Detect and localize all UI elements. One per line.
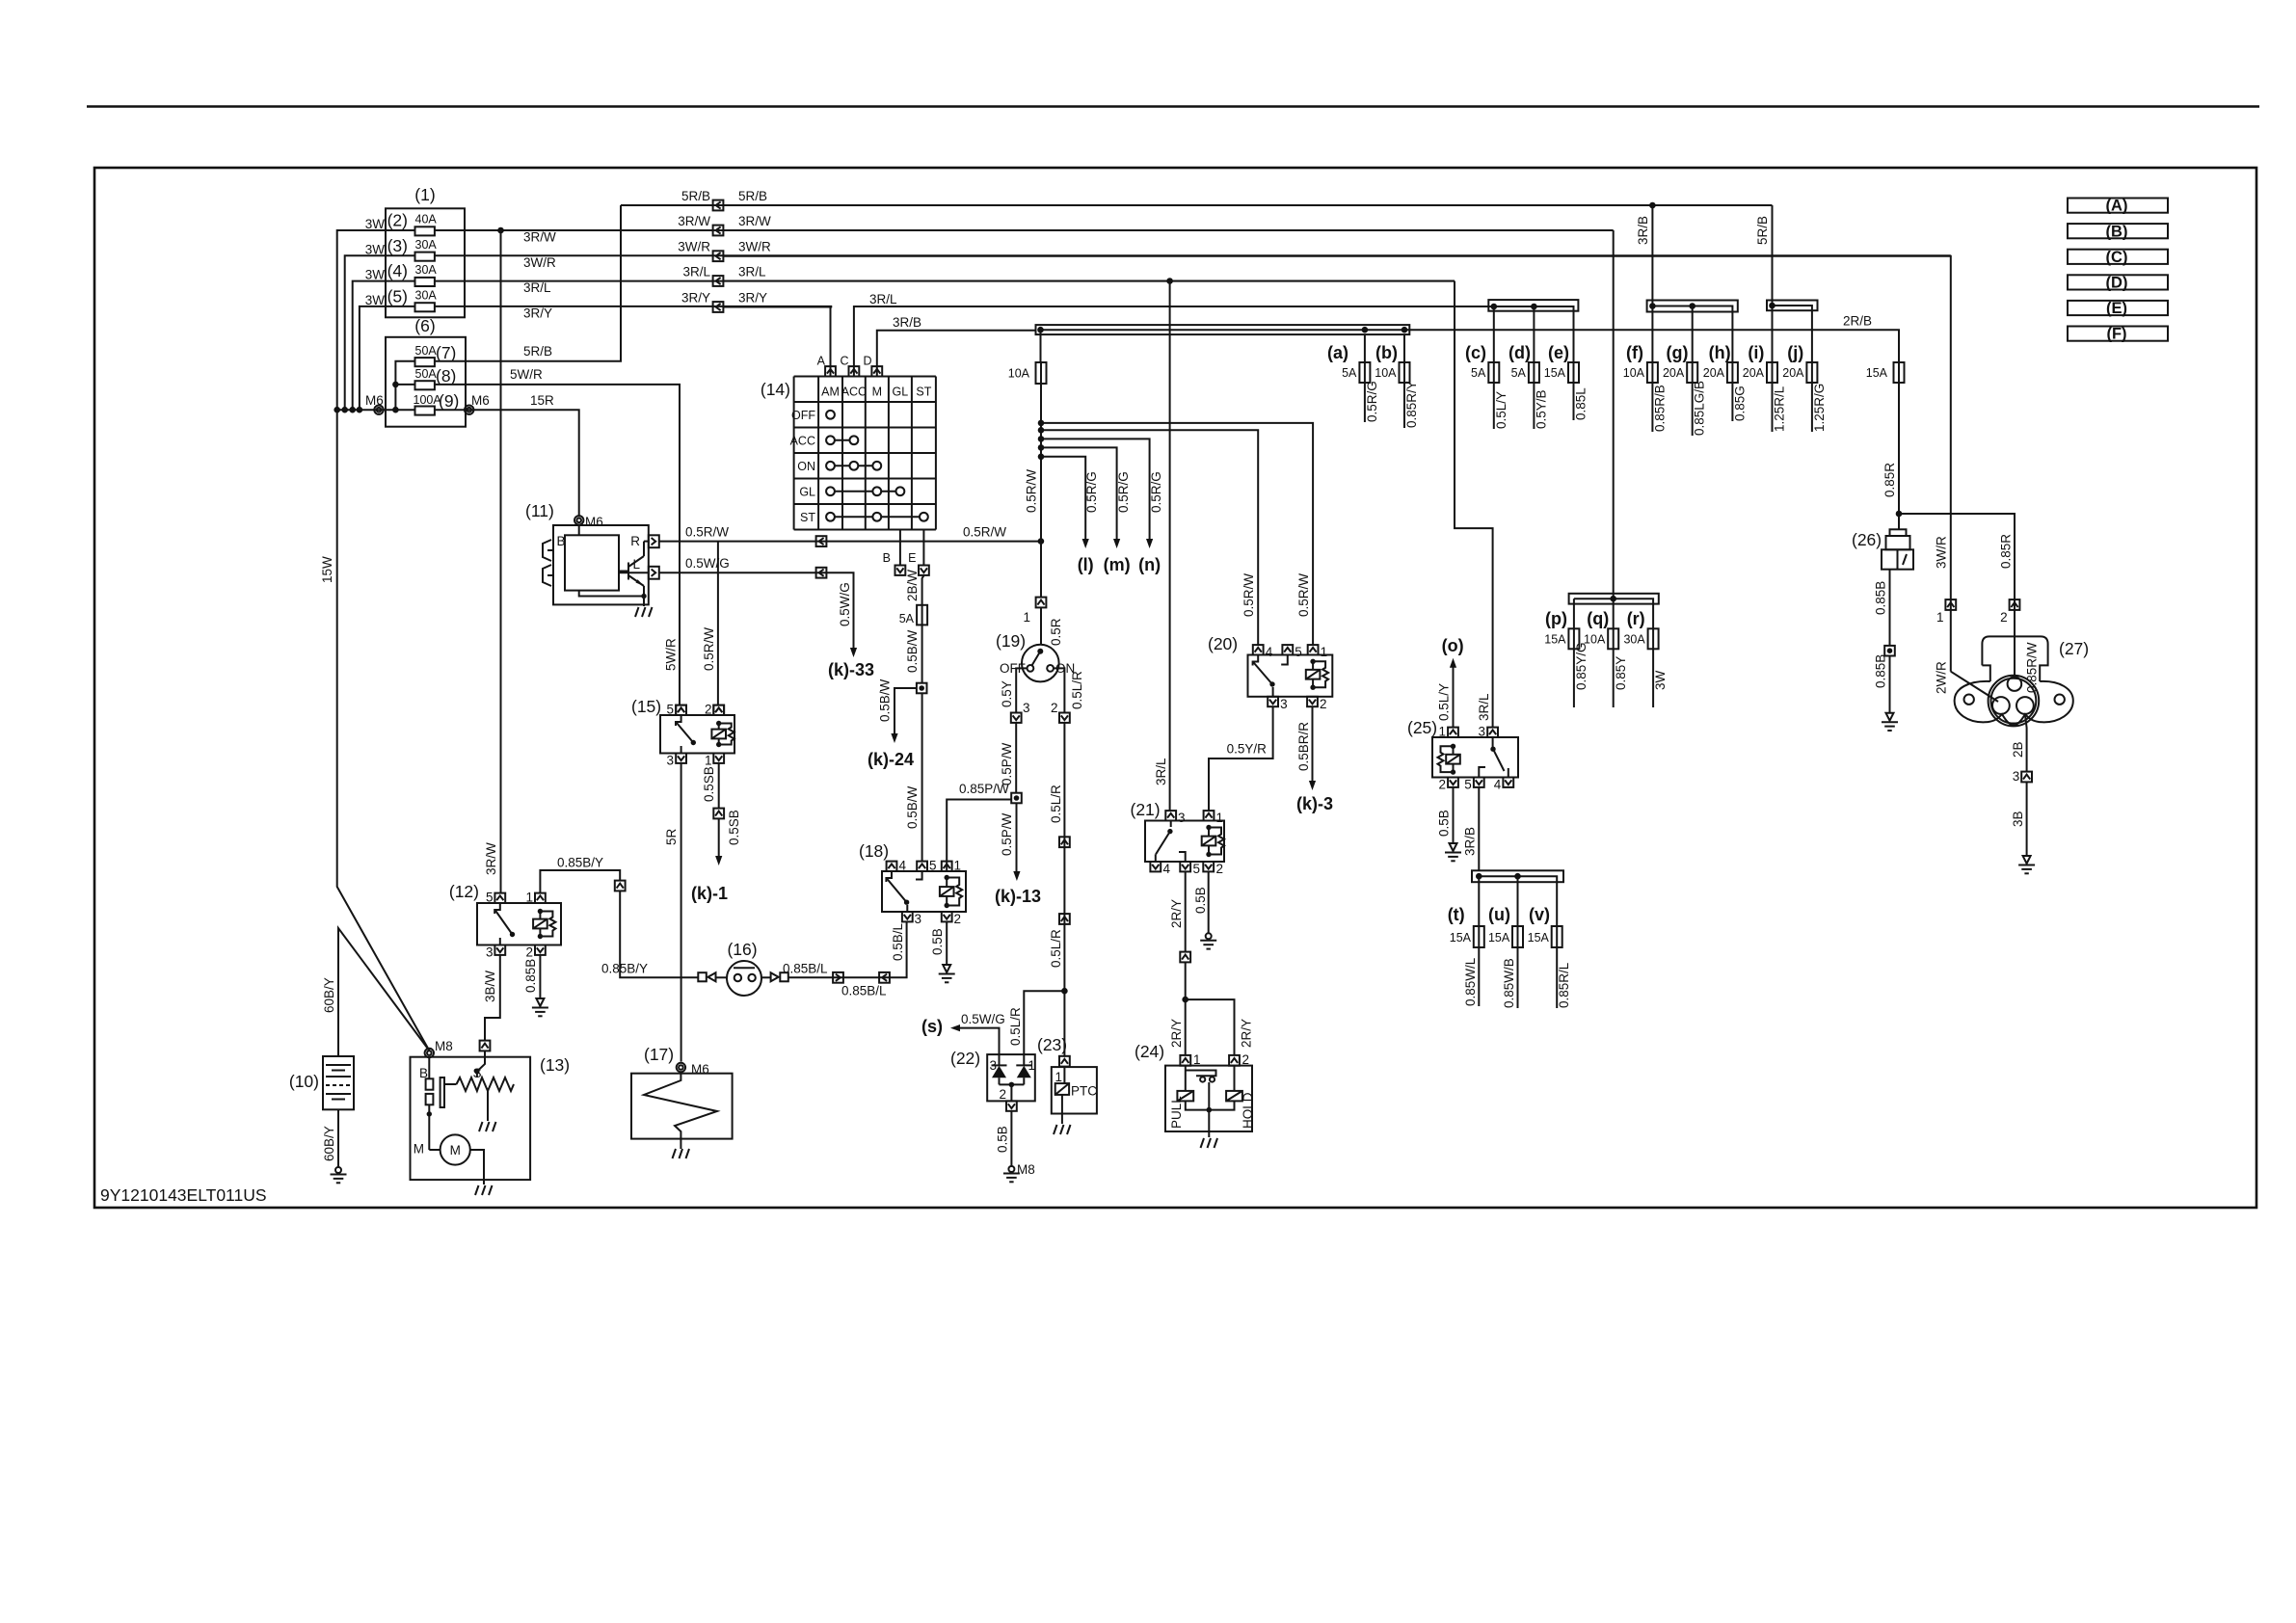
fuse 10A bbox=[1036, 362, 1047, 384]
wire 0.5L/R ON side bbox=[1054, 668, 1064, 712]
wire 2W/R diagonal bbox=[1951, 672, 1998, 702]
contact squares bbox=[426, 1078, 434, 1104]
wire 0.5Y/R pin 3 to (21) pin 1 bbox=[1209, 706, 1273, 811]
wire 0.5B to M8 ground bbox=[1010, 1111, 1012, 1166]
svg-text:3W: 3W bbox=[365, 217, 386, 231]
junction dot bbox=[641, 594, 646, 599]
starter (13) body bbox=[411, 1057, 531, 1180]
wire B internal bbox=[578, 525, 580, 536]
wire 0.5P/W to arrow bbox=[1016, 803, 1018, 871]
page top rule bbox=[87, 105, 2259, 108]
fuse (c) 5A bbox=[1488, 362, 1499, 383]
wire 0.85Y/G stub bbox=[1573, 649, 1575, 707]
pin 2 connector bbox=[1059, 713, 1070, 723]
svg-text:0.85W/L: 0.85W/L bbox=[1463, 957, 1478, 1006]
socket ring bbox=[1989, 676, 2040, 727]
wire main bus 15R bbox=[337, 409, 415, 411]
svg-text:(27): (27) bbox=[2059, 639, 2089, 658]
socket (27) hood bbox=[1982, 636, 2047, 681]
fuse (h) 20A bbox=[1727, 362, 1738, 383]
connector inline bbox=[1059, 837, 1070, 847]
fuse (u) 15A bbox=[1512, 926, 1523, 947]
bus strip (t)(u)(v) bbox=[1472, 870, 1563, 882]
wire 0.5SB pin 1 bbox=[718, 763, 720, 808]
pin 1 connector bbox=[1308, 645, 1319, 654]
bus strip (c)(d)(e) bbox=[1488, 300, 1578, 311]
fuse box (1) bbox=[386, 208, 465, 317]
svg-text:C: C bbox=[840, 355, 848, 368]
wire 0.5L/Y stub bbox=[1493, 383, 1495, 429]
wire 5W/R fuse (8) bbox=[395, 384, 414, 386]
wire 0.85B/L to relay (18) pin3 bbox=[788, 922, 907, 977]
svg-text:1.25R/L: 1.25R/L bbox=[1773, 386, 1787, 432]
junction dot bbox=[1038, 427, 1045, 434]
connector row 3R/W bbox=[713, 226, 724, 236]
svg-text:2W/R: 2W/R bbox=[1935, 661, 1949, 694]
svg-text:3R/L: 3R/L bbox=[523, 280, 551, 295]
svg-text:1: 1 bbox=[954, 859, 962, 873]
svg-text:(6): (6) bbox=[414, 316, 435, 335]
dynamo armature box bbox=[565, 535, 619, 590]
fuse (i) 20A bbox=[1767, 362, 1777, 383]
wire branch to (n) bbox=[1041, 439, 1150, 539]
svg-text:PULL: PULL bbox=[1169, 1096, 1184, 1129]
svg-text:2: 2 bbox=[1216, 862, 1224, 876]
fuse (v) 15A bbox=[1552, 926, 1562, 947]
svg-text:30A: 30A bbox=[415, 238, 438, 252]
svg-text:1: 1 bbox=[1321, 645, 1328, 659]
svg-text:(24): (24) bbox=[1135, 1042, 1164, 1061]
svg-text:3: 3 bbox=[2013, 769, 2020, 784]
pin 1 connector bbox=[1448, 728, 1458, 737]
svg-text:0.5Y/B: 0.5Y/B bbox=[1534, 389, 1548, 429]
bolt M6 glow plug bbox=[677, 1063, 685, 1072]
pin 1 connector bbox=[942, 862, 952, 871]
svg-text:0.5R/G: 0.5R/G bbox=[1116, 471, 1131, 513]
svg-text:2: 2 bbox=[999, 1087, 1006, 1102]
wire 3W row 2 to bus bbox=[337, 230, 415, 410]
wire motor left bbox=[429, 1149, 440, 1151]
svg-text:(h): (h) bbox=[1709, 343, 1731, 362]
svg-text:0.5B: 0.5B bbox=[1193, 887, 1208, 914]
wire 0.85R/Y stub bbox=[1403, 383, 1405, 428]
svg-text:(C): (C) bbox=[2106, 249, 2128, 266]
junction dot branch (22) bbox=[1061, 988, 1068, 995]
svg-text:B: B bbox=[557, 534, 566, 548]
svg-text:3R/B: 3R/B bbox=[893, 315, 921, 330]
svg-text:3: 3 bbox=[1023, 701, 1030, 715]
svg-text:5: 5 bbox=[929, 859, 937, 873]
wire 3R/L to pin 3 bbox=[1169, 281, 1171, 811]
relay (21) body bbox=[1145, 821, 1224, 863]
ground PTC bbox=[1054, 1125, 1071, 1134]
fuse (j) 20A bbox=[1806, 362, 1817, 383]
svg-text:15A: 15A bbox=[1488, 931, 1510, 945]
svg-text:3: 3 bbox=[915, 912, 922, 926]
wire 3W row 4 to bus bbox=[353, 281, 415, 411]
svg-text:0.5B/L: 0.5B/L bbox=[891, 922, 905, 961]
fuse (9) 100A bbox=[415, 407, 435, 415]
svg-text:0.85W/B: 0.85W/B bbox=[1502, 958, 1516, 1008]
wire 3B/W pin 3 to starter S bbox=[485, 955, 500, 1040]
junction dot (u) bbox=[1514, 873, 1521, 880]
pin 5 connector bbox=[676, 705, 686, 715]
svg-text:GL: GL bbox=[799, 485, 815, 498]
svg-text:3R/Y: 3R/Y bbox=[738, 291, 767, 306]
junction dot 0.85R bbox=[1896, 511, 1903, 518]
svg-text:OFF: OFF bbox=[791, 409, 815, 422]
fuse (8) 50A bbox=[415, 381, 435, 389]
contact ON bbox=[1047, 665, 1054, 672]
pin 2 connector bbox=[1203, 862, 1214, 871]
wire 3R/Y row to key switch A bbox=[724, 306, 833, 308]
wire pin1 bbox=[1063, 1067, 1065, 1084]
svg-text:3W/R: 3W/R bbox=[523, 255, 556, 270]
svg-text:(10): (10) bbox=[289, 1072, 319, 1091]
terminal C connector / wire 3R/L switched bbox=[854, 306, 1488, 377]
svg-text:(18): (18) bbox=[859, 841, 889, 861]
svg-text:0.85B/L: 0.85B/L bbox=[841, 984, 887, 998]
svg-text:3R/Y: 3R/Y bbox=[523, 306, 552, 320]
dynamo brushes bbox=[543, 540, 553, 586]
junction dot B contact bbox=[428, 1104, 430, 1150]
wire motor to ground bbox=[470, 1150, 484, 1184]
socket (27) mounting plate bbox=[1955, 681, 2073, 726]
bolt M6 right bbox=[465, 406, 473, 414]
svg-text:1: 1 bbox=[1438, 725, 1446, 739]
svg-text:0.5SB: 0.5SB bbox=[727, 810, 741, 845]
svg-text:5A: 5A bbox=[1342, 366, 1357, 380]
svg-text:3B/W: 3B/W bbox=[483, 971, 497, 1002]
svg-text:ACC: ACC bbox=[841, 386, 867, 399]
svg-text:(D): (D) bbox=[2106, 275, 2128, 292]
ground relay (18) bbox=[943, 965, 950, 972]
svg-text:1: 1 bbox=[705, 754, 712, 768]
wire pin1 internal bbox=[1185, 1066, 1187, 1091]
svg-text:GL: GL bbox=[893, 386, 909, 399]
wire internal ground path bbox=[579, 591, 644, 597]
wire 0.5W/G from dynamo L bbox=[659, 572, 854, 648]
wire ground bbox=[680, 1139, 681, 1149]
wire 0.5BR/R pin 2 bbox=[1312, 706, 1314, 781]
connector inline pin 2 bbox=[2010, 599, 2020, 610]
svg-text:1: 1 bbox=[1193, 1052, 1201, 1067]
mounting hole left bbox=[1964, 695, 1974, 705]
fuse (g) 20A bbox=[1687, 362, 1697, 383]
pin 5 connector bbox=[494, 893, 505, 903]
relay (25) switch bbox=[1490, 747, 1495, 752]
connector inline 0.85B/Y bbox=[615, 881, 626, 891]
wire through strip bbox=[1773, 306, 1812, 362]
svg-text:3B: 3B bbox=[2011, 811, 2025, 827]
svg-text:0.5Y: 0.5Y bbox=[1000, 680, 1014, 707]
wire diode common bbox=[1000, 1083, 1025, 1085]
svg-text:(p): (p) bbox=[1545, 609, 1567, 628]
wire 0.5B pin 2 ground bbox=[1208, 872, 1210, 934]
svg-text:2R/Y: 2R/Y bbox=[1169, 1019, 1184, 1048]
svg-text:M: M bbox=[872, 386, 882, 399]
connector inline 0.5SB bbox=[713, 809, 724, 819]
pin 1 connector bbox=[1036, 598, 1047, 608]
pin 5 hook bbox=[1281, 655, 1288, 665]
svg-text:ST: ST bbox=[800, 511, 815, 524]
arrow (l) bbox=[1082, 539, 1089, 548]
wire 1.25R/G stub bbox=[1811, 383, 1813, 432]
wire ground bbox=[1208, 1110, 1210, 1137]
svg-text:10A: 10A bbox=[1584, 633, 1606, 647]
bus strip (a)(b) bbox=[1036, 325, 1410, 334]
relay (25) body bbox=[1432, 737, 1518, 778]
contact OFF bbox=[1028, 665, 1034, 672]
svg-text:PTC: PTC bbox=[1071, 1084, 1097, 1099]
relay (20) switch bbox=[1253, 655, 1272, 685]
svg-text:M6: M6 bbox=[585, 515, 603, 529]
relay (12) body bbox=[477, 903, 561, 945]
svg-text:(d): (d) bbox=[1508, 343, 1531, 362]
legend box (D) bbox=[2068, 275, 2168, 289]
svg-text:0.5R/W: 0.5R/W bbox=[702, 627, 716, 671]
svg-text:0.5L/R: 0.5L/R bbox=[1049, 929, 1063, 968]
svg-text:0.5B/W: 0.5B/W bbox=[905, 785, 920, 829]
ground (27) bbox=[2023, 856, 2031, 864]
svg-text:0.85Y/G: 0.85Y/G bbox=[1574, 642, 1589, 690]
wire 0.5Y OFF side bbox=[1016, 668, 1028, 712]
svg-text:D: D bbox=[863, 355, 871, 368]
svg-text:(a): (a) bbox=[1327, 343, 1348, 362]
relay (21) switch bbox=[1170, 821, 1172, 828]
wire L internal bbox=[619, 572, 649, 573]
wire 3W row 5 to bus bbox=[360, 306, 415, 410]
svg-text:(e): (e) bbox=[1548, 343, 1569, 362]
relay (12) coil bbox=[533, 909, 555, 939]
pin 3 connector bbox=[494, 945, 505, 955]
svg-text:1: 1 bbox=[1936, 610, 1944, 625]
svg-text:5: 5 bbox=[1193, 862, 1201, 876]
fuse box (6) bbox=[386, 337, 466, 427]
wire 0.85Y stub bbox=[1613, 649, 1615, 707]
svg-text:(12): (12) bbox=[449, 882, 479, 901]
wire to fuse (b) bbox=[1403, 334, 1405, 362]
svg-text:0.5R/W: 0.5R/W bbox=[963, 525, 1006, 540]
svg-text:M6: M6 bbox=[691, 1062, 709, 1077]
junction dot (g) bbox=[1689, 303, 1695, 309]
svg-text:10A: 10A bbox=[1008, 367, 1030, 381]
junction dot (b) bbox=[1402, 327, 1408, 333]
svg-text:(k)-1: (k)-1 bbox=[691, 884, 728, 903]
connector inline 0.5W/G bbox=[816, 568, 827, 578]
wire 1.25R/L stub bbox=[1772, 383, 1774, 432]
svg-text:15A: 15A bbox=[1528, 931, 1550, 945]
wire 0.85B bbox=[1889, 570, 1891, 646]
wire 3W row 3 to bus bbox=[345, 255, 415, 410]
fuse (d) 5A bbox=[1529, 362, 1539, 383]
ground starter motor bbox=[475, 1185, 493, 1195]
fuse (7) 50A bbox=[415, 358, 435, 366]
pin 4 connector bbox=[887, 862, 897, 871]
svg-text:2: 2 bbox=[1242, 1052, 1250, 1067]
fuse 15A 2R/B bbox=[1894, 362, 1905, 383]
svg-text:(j): (j) bbox=[1787, 343, 1803, 362]
wire riser fuses 7,8 to bus bbox=[395, 361, 414, 410]
svg-text:M: M bbox=[414, 1142, 424, 1157]
svg-text:0.85LG/B: 0.85LG/B bbox=[1693, 381, 1707, 436]
wire 0.5W/G to (s) bbox=[960, 1028, 1000, 1055]
contacts row ACC bbox=[826, 436, 858, 444]
svg-text:30A: 30A bbox=[1623, 633, 1645, 647]
svg-text:3R/L: 3R/L bbox=[1477, 693, 1491, 721]
fuse (2) 40A bbox=[415, 226, 435, 235]
pin circle left bbox=[1992, 697, 2010, 714]
svg-text:0.5W/G: 0.5W/G bbox=[685, 556, 730, 571]
svg-text:4: 4 bbox=[1163, 862, 1171, 876]
legend box (C) bbox=[2068, 250, 2168, 264]
svg-text:(b): (b) bbox=[1375, 343, 1398, 362]
svg-text:ACC: ACC bbox=[790, 434, 815, 447]
pin 5 connector bbox=[1180, 862, 1190, 871]
svg-text:0.5R/W: 0.5R/W bbox=[1296, 573, 1311, 617]
wire to fuse (t) bbox=[1478, 876, 1480, 926]
svg-text:0.85R: 0.85R bbox=[1882, 463, 1897, 497]
svg-text:(l): (l) bbox=[1078, 555, 1094, 574]
wire 0.85W/B stub bbox=[1517, 947, 1519, 1008]
wire through strip bbox=[1652, 306, 1732, 363]
junction dot 3R/B tap bbox=[1649, 202, 1656, 209]
wire 0.85W/L stub bbox=[1478, 947, 1480, 1006]
svg-text:0.5BR/R: 0.5BR/R bbox=[1296, 722, 1311, 771]
contacts row OFF bbox=[826, 411, 835, 419]
svg-text:0.5L/R: 0.5L/R bbox=[1008, 1007, 1023, 1046]
svg-text:3R/B: 3R/B bbox=[1463, 827, 1478, 856]
svg-text:(23): (23) bbox=[1037, 1035, 1067, 1054]
wire to fuse (d) bbox=[1533, 306, 1535, 362]
wire 2R/B through strip bbox=[1041, 330, 1900, 362]
svg-text:(16): (16) bbox=[727, 940, 757, 959]
contacts row ON bbox=[826, 462, 881, 470]
arrow (o) bbox=[1450, 658, 1456, 668]
svg-text:(F): (F) bbox=[2106, 326, 2126, 343]
svg-text:0.5L/Y: 0.5L/Y bbox=[1437, 683, 1452, 721]
svg-text:0.5B: 0.5B bbox=[930, 928, 945, 955]
connector row 3R/Y bbox=[713, 302, 724, 312]
wire 0.5L/R chain bbox=[1063, 723, 1065, 1057]
svg-text:3R/L: 3R/L bbox=[738, 265, 766, 279]
fuse (4) 30A bbox=[415, 278, 435, 286]
plug (26) bbox=[1882, 529, 1913, 569]
svg-text:(8): (8) bbox=[436, 366, 456, 386]
pin 1 connector bbox=[1180, 1055, 1190, 1066]
wire 3R/L row bbox=[724, 280, 1455, 282]
plug (16) bbox=[727, 961, 761, 996]
ground relay (12) bbox=[536, 998, 544, 1006]
svg-text:3R/Y: 3R/Y bbox=[681, 291, 710, 306]
pin 3 connector bbox=[676, 754, 686, 763]
svg-text:(26): (26) bbox=[1852, 530, 1882, 549]
svg-text:2: 2 bbox=[954, 912, 962, 926]
ground solenoid (24) bbox=[1201, 1138, 1218, 1148]
svg-text:A: A bbox=[817, 355, 826, 368]
wire to ground bbox=[1061, 1095, 1063, 1124]
junction square 0.5B/W bbox=[917, 683, 927, 694]
pin 3 connector bbox=[1487, 728, 1498, 737]
connector row 3W/R bbox=[713, 251, 724, 261]
wire 5R/B fuse (7) riser bbox=[435, 205, 621, 361]
svg-text:(15): (15) bbox=[631, 697, 661, 716]
fuse 5A bbox=[917, 605, 927, 625]
svg-text:0.5SB: 0.5SB bbox=[702, 766, 716, 802]
svg-text:0.85B: 0.85B bbox=[1874, 654, 1888, 688]
junction dot (t) bbox=[1476, 873, 1482, 880]
wire to fuse (u) bbox=[1517, 876, 1519, 926]
svg-text:M8: M8 bbox=[435, 1039, 453, 1053]
svg-text:(1): (1) bbox=[414, 185, 435, 204]
pin 4 connector bbox=[1503, 778, 1513, 787]
svg-text:M6: M6 bbox=[471, 393, 490, 408]
pin 4 connector bbox=[1253, 645, 1264, 654]
relay (21) coil bbox=[1202, 825, 1224, 857]
svg-text:(A): (A) bbox=[2106, 198, 2128, 215]
bus strip (i)(j) bbox=[1767, 301, 1818, 311]
svg-text:10A: 10A bbox=[1375, 366, 1397, 380]
wire 5R/B row bbox=[621, 204, 1773, 206]
svg-text:5W/R: 5W/R bbox=[510, 367, 543, 382]
svg-text:3R/L: 3R/L bbox=[682, 265, 710, 279]
svg-text:0.85R: 0.85R bbox=[1999, 534, 2014, 569]
bus strip (p)(q)(r) bbox=[1569, 594, 1659, 604]
junction dot bbox=[1038, 420, 1045, 427]
wire 3R/L jog to pin 3 bbox=[1455, 281, 1493, 728]
connector inline 2R/Y bbox=[1180, 952, 1190, 963]
svg-text:5: 5 bbox=[486, 891, 494, 905]
fuse (q) 10A bbox=[1608, 628, 1618, 649]
svg-text:M8: M8 bbox=[1017, 1162, 1035, 1177]
dynamo (11) body bbox=[553, 525, 649, 604]
svg-text:3W: 3W bbox=[1653, 670, 1668, 690]
pin 3 connector bbox=[1011, 713, 1022, 723]
pin 1 connector bbox=[535, 893, 546, 903]
ground solenoid bbox=[479, 1122, 496, 1131]
pin 2 connector bbox=[1229, 1055, 1240, 1066]
svg-text:0.5R/G: 0.5R/G bbox=[1365, 381, 1379, 422]
svg-text:(20): (20) bbox=[1208, 634, 1238, 653]
wire 0.85L stub bbox=[1573, 383, 1575, 420]
svg-text:(5): (5) bbox=[387, 286, 408, 306]
svg-text:0.5R/W: 0.5R/W bbox=[685, 525, 729, 540]
svg-text:15R: 15R bbox=[530, 393, 554, 408]
svg-text:2R/B: 2R/B bbox=[1843, 314, 1872, 329]
svg-text:5W/R: 5W/R bbox=[664, 638, 679, 671]
svg-text:3: 3 bbox=[1178, 811, 1186, 825]
svg-text:(2): (2) bbox=[387, 211, 408, 230]
mounting hole right bbox=[2055, 695, 2065, 705]
svg-text:2: 2 bbox=[1051, 701, 1058, 715]
svg-text:(m): (m) bbox=[1104, 555, 1131, 574]
wire branch to relay (20) pin1 bbox=[1041, 423, 1313, 645]
junction dot (c) bbox=[1491, 304, 1498, 310]
svg-text:(s): (s) bbox=[921, 1017, 943, 1036]
svg-text:R: R bbox=[630, 534, 640, 548]
transistor Q internal bbox=[619, 542, 644, 597]
wire 0.5R/W from dynamo R bbox=[659, 541, 1041, 543]
wire 0.5B/W to relay (18) pin 5 bbox=[921, 693, 923, 861]
terminal B connector bbox=[899, 530, 901, 566]
fuse (e) 15A bbox=[1568, 362, 1579, 383]
svg-text:0.5W/G: 0.5W/G bbox=[961, 1012, 1005, 1026]
connector row 5R/B bbox=[713, 200, 724, 211]
svg-text:50A: 50A bbox=[415, 344, 438, 358]
pin 2 connector bbox=[535, 945, 546, 955]
solenoid (24) body bbox=[1165, 1066, 1252, 1131]
connector row 3R/L bbox=[713, 276, 724, 286]
